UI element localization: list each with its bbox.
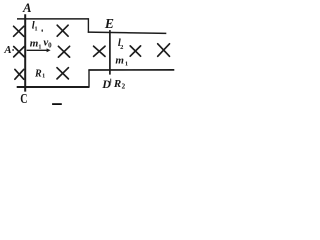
svg-text:R: R: [34, 69, 42, 80]
svg-text:E: E: [104, 16, 114, 31]
svg-text:A: A: [3, 44, 11, 56]
svg-text:1: 1: [38, 43, 41, 50]
svg-text:1: 1: [42, 73, 45, 80]
svg-text:A: A: [22, 1, 32, 15]
stray tick under rod 2: [110, 79, 112, 83]
svg-text:1: 1: [34, 25, 37, 32]
bar AC (rod 1): [24, 14, 26, 91]
cross x7: [94, 46, 105, 56]
cross x6: [57, 68, 68, 79]
arrow v0: [27, 49, 48, 51]
svg-text:m: m: [115, 54, 124, 66]
cross x4: [58, 46, 69, 57]
svg-text:R: R: [113, 78, 121, 90]
bar ED (rod 2): [109, 30, 111, 75]
svg-text:1: 1: [125, 61, 128, 68]
cross x2: [57, 25, 68, 36]
svg-text:2: 2: [122, 81, 126, 90]
cropped text fragment at bottom edge: [52, 103, 62, 105]
wire top-left rail: [17, 18, 89, 20]
wire narrow bottom rail: [88, 69, 174, 71]
wire narrow top rail: [88, 32, 167, 33]
wire bottom-left rail: [17, 86, 90, 88]
cross x3: [14, 47, 25, 57]
cross x5: [15, 69, 24, 79]
svg-text:2: 2: [120, 44, 123, 51]
wire bottom step vertical: [88, 70, 90, 88]
cross x8: [130, 46, 140, 56]
cross x1: [14, 26, 24, 36]
dot after B: [12, 49, 14, 51]
svg-text:D: D: [101, 77, 111, 91]
svg-text:0: 0: [48, 41, 52, 49]
wire top step vertical: [87, 18, 89, 33]
speck after l1: [42, 29, 43, 32]
field crosses: [14, 25, 170, 79]
svg-text:C: C: [20, 90, 27, 105]
cross x9: [158, 44, 170, 57]
